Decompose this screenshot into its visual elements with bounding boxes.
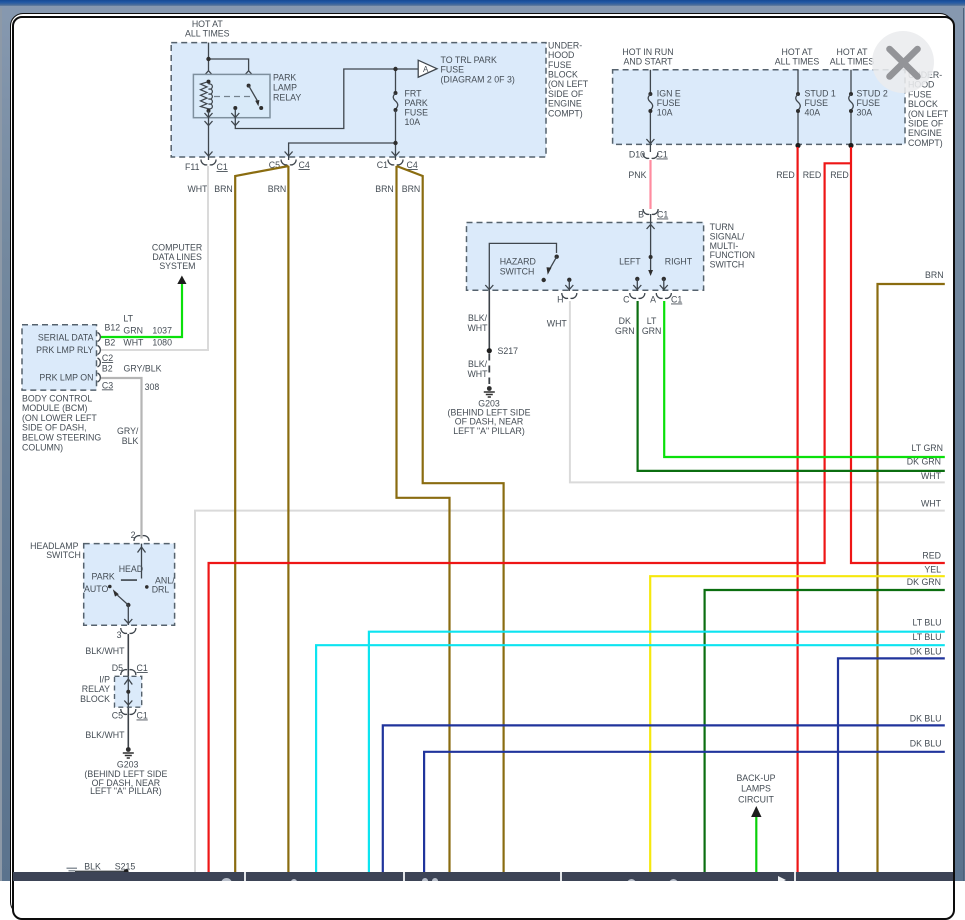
label: UNDER-HOOD FUSE BLOCK (left box) [548,40,589,118]
wire LT BLU lower [316,645,945,872]
wire DK GRN turn C to right edge [638,301,945,471]
node LEFT contact [635,277,639,281]
svg-text:B2: B2 [105,338,116,348]
labels GRY/BLK on wire [117,426,139,446]
svg-text:A: A [650,295,656,305]
bottom toolbar [13,872,953,881]
svg-text:DK BLU: DK BLU [910,739,942,749]
svg-text:FUSE: FUSE [441,65,465,75]
svg-text:LT: LT [123,314,133,324]
svg-text:BODY CONTROL: BODY CONTROL [22,393,92,403]
svg-text:DK GRN: DK GRN [907,577,941,587]
relay actuation dashed link [214,96,252,98]
svg-text:S217: S217 [498,346,519,356]
label: PARK LAMP RELAY [273,72,301,102]
svg-text:ENGINE: ENGINE [548,99,582,109]
svg-text:WHT: WHT [921,471,942,481]
svg-text:WHT: WHT [187,184,208,194]
svg-text:C2: C2 [102,353,113,363]
svg-text:C3: C3 [102,380,113,390]
svg-text:D10: D10 [629,150,645,160]
svg-text:3: 3 [117,630,122,640]
svg-text:C1: C1 [137,663,148,673]
park lamp relay box U1 [193,74,270,117]
svg-text:RELAY: RELAY [82,684,110,694]
svg-text:BLOCK: BLOCK [548,70,578,80]
svg-text:BLK/WHT: BLK/WHT [85,646,125,656]
svg-text:B2: B2 [102,363,113,373]
fuse STUD 2 30A [850,70,852,146]
svg-text:LEFT "A" PILLAR): LEFT "A" PILLAR) [453,426,525,436]
wire: feed from HOT AT ALL TIMES [209,43,249,71]
svg-text:ALL TIMES: ALL TIMES [775,57,820,67]
svg-text:GRN: GRN [123,325,143,335]
svg-text:RED: RED [922,551,941,561]
svg-text:FUSE: FUSE [657,98,681,108]
svg-text:GRN: GRN [642,326,662,336]
label: BODY CONTROL MODULE [22,393,101,452]
svg-text:308: 308 [145,382,160,392]
ground G203 (behind dash) [484,386,495,397]
svg-text:DK: DK [619,316,631,326]
svg-text:10A: 10A [657,108,673,118]
svg-text:HOT AT: HOT AT [192,19,224,29]
svg-text:I/P: I/P [99,674,110,684]
svg-text:C1: C1 [217,162,228,172]
svg-text:1037: 1037 [152,325,172,335]
svg-text:SWITCH: SWITCH [500,267,535,277]
wire labels WHT BRN BRN BRN BRN [187,184,420,194]
svg-text:BRN: BRN [402,184,421,194]
svg-text:GRY/: GRY/ [117,426,139,436]
svg-text:PRK LMP RLY: PRK LMP RLY [36,345,93,355]
svg-text:LT GRN: LT GRN [912,443,943,453]
svg-text:SIDE OF DASH,: SIDE OF DASH, [22,423,87,433]
svg-text:STUD 2: STUD 2 [857,89,888,99]
svg-text:40A: 40A [805,108,821,118]
svg-text:C1: C1 [671,295,682,305]
node: junction dot [206,57,210,61]
fuse STUD 1 40A [797,70,799,146]
svg-text:H: H [557,295,563,305]
wire WHT right edge to S215 [195,511,945,872]
node RIGHT contact [662,277,666,281]
wire LT BLU upper [369,632,945,872]
svg-text:(ON LEFT: (ON LEFT [908,109,949,119]
wire RED stud2 branch to headlamp area [209,163,851,872]
wire labels below turn switch [547,316,662,336]
svg-text:SWITCH: SWITCH [46,550,81,560]
svg-text:WHT: WHT [123,338,144,348]
switch arm [126,603,130,607]
svg-text:FUSE: FUSE [805,98,829,108]
wire BLK/WHT dashed to G203 [488,354,490,385]
svg-text:2: 2 [131,530,136,540]
svg-text:HOT IN RUN: HOT IN RUN [622,47,673,57]
svg-text:WHT: WHT [467,323,488,333]
svg-text:FUSE: FUSE [405,108,429,118]
svg-text:C: C [623,295,630,305]
park contact bar [121,579,137,581]
svg-text:C4: C4 [407,160,418,170]
svg-text:HOT AT: HOT AT [782,47,814,57]
wire labels RED RED RED [776,170,849,180]
svg-text:DRL: DRL [152,584,170,594]
fuse FRT PARK FUSE 10A [394,91,398,95]
svg-text:BLK: BLK [122,436,139,446]
svg-text:ENGINE: ENGINE [908,128,942,138]
wire PNK D10 to B [649,160,651,209]
wire DK BLU low [424,752,945,872]
wire BLK/WHT hazard to S217 [488,291,490,351]
wire DK BLU right [838,658,945,872]
svg-text:ALL TIMES: ALL TIMES [830,57,875,67]
svg-text:PNK: PNK [628,170,646,180]
relay coil [201,82,209,109]
relay exits [205,113,213,118]
wire RED stud1 down [796,147,798,872]
svg-text:HOT AT: HOT AT [837,47,869,57]
svg-text:C1: C1 [657,210,668,220]
wire BRN C1/C4 diagonal, jog right [397,166,504,872]
svg-text:UNDER-: UNDER- [548,40,582,50]
wire BRN C5/C4 straight [287,166,289,872]
svg-text:SIDE OF: SIDE OF [908,119,944,129]
svg-text:BRN: BRN [214,184,233,194]
svg-text:BACK-UP: BACK-UP [736,773,775,783]
svg-text:YEL: YEL [924,565,941,575]
svg-text:WHT: WHT [467,369,488,379]
svg-text:GRY/BLK: GRY/BLK [124,364,162,374]
svg-text:LT: LT [647,316,657,326]
svg-text:FUSE: FUSE [857,98,881,108]
svg-text:PARK: PARK [273,72,296,82]
svg-text:BELOW STEERING: BELOW STEERING [22,433,101,443]
svg-text:GRN: GRN [615,326,635,336]
svg-text:BLOCK: BLOCK [908,99,938,109]
svg-text:BRN: BRN [925,270,944,280]
svg-text:PRK LMP ON: PRK LMP ON [39,373,93,383]
BCM terminal arcs [98,333,101,383]
svg-text:BLK: BLK [84,861,101,871]
switch input wire [141,544,143,579]
close button X [872,31,934,93]
node S217 [487,348,492,353]
svg-text:10A: 10A [405,117,421,127]
svg-text:BLOCK: BLOCK [80,694,110,704]
svg-text:(ON LOWER LEFT: (ON LOWER LEFT [22,413,97,423]
ground G203 (I/P) [123,747,134,758]
svg-text:DK BLU: DK BLU [910,647,942,657]
arrow up [177,276,186,285]
svg-text:MODULE (BCM): MODULE (BCM) [22,403,88,413]
svg-text:HEAD: HEAD [119,564,143,574]
svg-text:(DIAGRAM 2 0F 3): (DIAGRAM 2 0F 3) [441,74,515,84]
wire GRN back-up lamps [755,817,757,872]
fuse IGN E 10A [649,70,651,152]
svg-text:C1: C1 [377,160,388,170]
wire LT GRN 1037 BCM B12 to computer data lines [101,283,182,337]
svg-text:IGN E: IGN E [657,89,681,99]
wire LT GRN turn A to right edge [664,301,945,457]
svg-text:LEFT: LEFT [619,256,641,266]
svg-text:30A: 30A [857,108,873,118]
node AUTO [108,585,112,589]
svg-text:RED: RED [830,170,849,180]
svg-text:C1: C1 [137,711,148,721]
svg-text:AND START: AND START [623,57,673,67]
svg-text:RED: RED [803,170,822,180]
svg-text:F11: F11 [185,162,200,172]
svg-text:SYSTEM: SYSTEM [159,261,195,271]
wire DK GRN right edge down [705,590,945,872]
wire WHT hazard H to right edge [570,301,945,482]
svg-text:WHT: WHT [921,499,942,509]
svg-text:COMPT): COMPT) [548,108,583,118]
svg-text:HAZARD: HAZARD [500,257,536,267]
svg-text:LT BLU: LT BLU [912,618,941,628]
svg-text:SERIAL DATA: SERIAL DATA [38,332,94,342]
svg-text:BRN: BRN [268,184,287,194]
svg-text:B12: B12 [105,322,121,332]
symbol: TO TRL PARK FUSE triangle A [418,60,437,77]
relay switch [247,84,251,88]
svg-text:A: A [423,65,429,74]
svg-text:FRT: FRT [405,89,423,99]
svg-text:LEFT "A" PILLAR): LEFT "A" PILLAR) [90,786,162,796]
svg-text:WHT: WHT [547,319,568,329]
wire BRN C5/C4 diagonal [235,166,288,872]
turn lever wire [650,214,652,271]
svg-text:DK GRN: DK GRN [907,457,941,467]
svg-text:C5: C5 [112,711,123,721]
svg-text:LAMPS: LAMPS [741,784,771,794]
svg-text:CIRCUIT: CIRCUIT [738,795,774,805]
svg-text:B: B [638,210,644,220]
svg-text:AUTO: AUTO [84,584,108,594]
svg-text:PARK: PARK [91,572,114,582]
svg-text:LT BLU: LT BLU [912,632,941,642]
svg-text:C1: C1 [657,150,668,160]
wire BRN C1/C4 straight, jog right [397,166,450,872]
svg-text:STUD 1: STUD 1 [805,89,836,99]
svg-text:SWITCH: SWITCH [710,260,745,270]
svg-text:HOOD: HOOD [548,50,574,60]
svg-text:SIDE OF: SIDE OF [548,89,584,99]
svg-text:RED: RED [776,170,795,180]
svg-text:FUSE: FUSE [548,60,572,70]
svg-text:C4: C4 [299,160,310,170]
svg-text:BLK/WHT: BLK/WHT [85,730,125,740]
svg-text:LAMP: LAMP [273,82,297,92]
wire YEL right edge down [650,576,945,872]
svg-text:RIGHT: RIGHT [665,256,693,266]
wire DK BLU mid [383,725,945,872]
svg-text:BLK/: BLK/ [468,359,488,369]
connector arcs below box [201,160,216,165]
svg-text:DK BLU: DK BLU [910,714,942,724]
svg-text:(ON LEFT: (ON LEFT [548,79,589,89]
svg-text:ALL TIMES: ALL TIMES [185,29,230,39]
svg-text:RELAY: RELAY [273,92,301,102]
svg-text:BLK/: BLK/ [468,313,488,323]
wire BRN right side [878,284,945,872]
label: HOT AT ALL TIMES [185,19,230,39]
connector B C1 [643,209,658,214]
svg-text:TO TRL PARK: TO TRL PARK [441,55,498,65]
svg-text:COMPT): COMPT) [908,138,943,148]
wire BLK/WHT headlamp to ground [127,634,129,748]
wire WHT F11 to BCM B2 [101,166,208,350]
svg-text:COLUMN): COLUMN) [22,442,63,452]
label: UNDER-HOOD FUSE BLOCK (right box) [908,70,949,148]
svg-text:PARK: PARK [405,98,428,108]
wire GRY/BLK 308 BCM C3 to headlamp switch [101,378,142,539]
svg-text:1080: 1080 [152,338,172,348]
svg-text:BRN: BRN [375,184,394,194]
wire RED stud2 to right edge [851,147,945,563]
node ANL/DRL [145,585,149,589]
